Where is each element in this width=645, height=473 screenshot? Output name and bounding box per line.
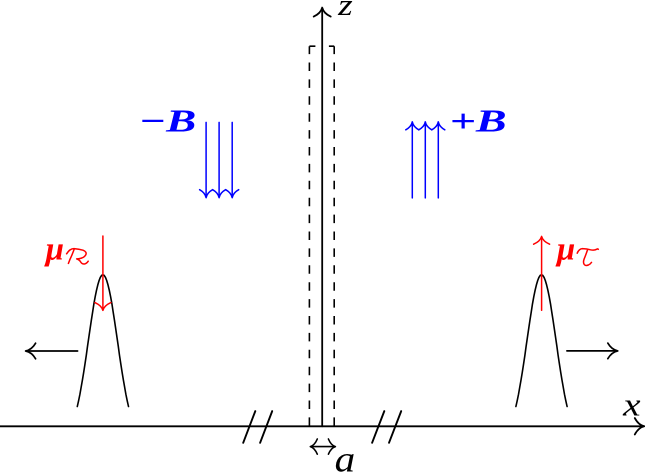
- magnetic moment arrow mu_R (red, downward): [95, 236, 111, 310]
- magnetic field +B arrows (upward, blue): [406, 122, 445, 198]
- transmitted wavepacket (right gaussian): [516, 275, 567, 407]
- svg-text:z: z: [337, 0, 353, 22]
- velocity arrow (right, black): [567, 343, 618, 359]
- dashed slit box right side: [333, 46, 335, 425]
- svg-text:μ: μ: [555, 232, 575, 268]
- axis break slashes (left pair): [243, 411, 272, 443]
- slit width double-headed arrow: [310, 439, 335, 454]
- magnetic moment arrow mu_T (red, upward): [534, 236, 550, 310]
- script R subscript: [67, 249, 89, 264]
- dashed slit box left side: [308, 46, 310, 425]
- magnetic field -B arrows (downward, blue): [200, 122, 239, 197]
- svg-text:x: x: [622, 388, 641, 424]
- svg-text:−B: −B: [139, 102, 197, 138]
- velocity arrow (left, black): [26, 343, 78, 359]
- axis break slashes (right pair): [372, 411, 401, 443]
- dashed slit box top edge: [309, 45, 334, 47]
- svg-text:a: a: [335, 440, 356, 473]
- z-axis: [314, 8, 331, 427]
- svg-text:+B: +B: [450, 102, 507, 138]
- script T subscript: [577, 249, 598, 266]
- reflected wavepacket (left gaussian): [77, 275, 128, 407]
- svg-text:μ: μ: [44, 232, 64, 268]
- x-axis: [0, 418, 644, 434]
